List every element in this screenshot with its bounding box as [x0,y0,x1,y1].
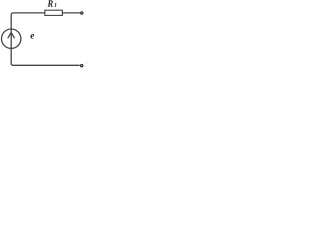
arrow shaft through source (node A to node B) [10,29,12,49]
wire top from corner to resistor [11,13,44,29]
resistor R1 [45,10,63,15]
arrowhead [8,33,14,38]
wire left lower + bottom [11,48,80,65]
wire resistor to right terminal [62,12,80,14]
label subscript 1 of R1 [54,3,56,7]
terminal node bottom right [81,64,83,66]
terminal node top right [81,12,83,14]
label R of R1 [47,0,52,6]
label e [30,34,34,39]
source E1 circle (EMF source e) [2,29,21,48]
stray pale mark [86,61,88,64]
